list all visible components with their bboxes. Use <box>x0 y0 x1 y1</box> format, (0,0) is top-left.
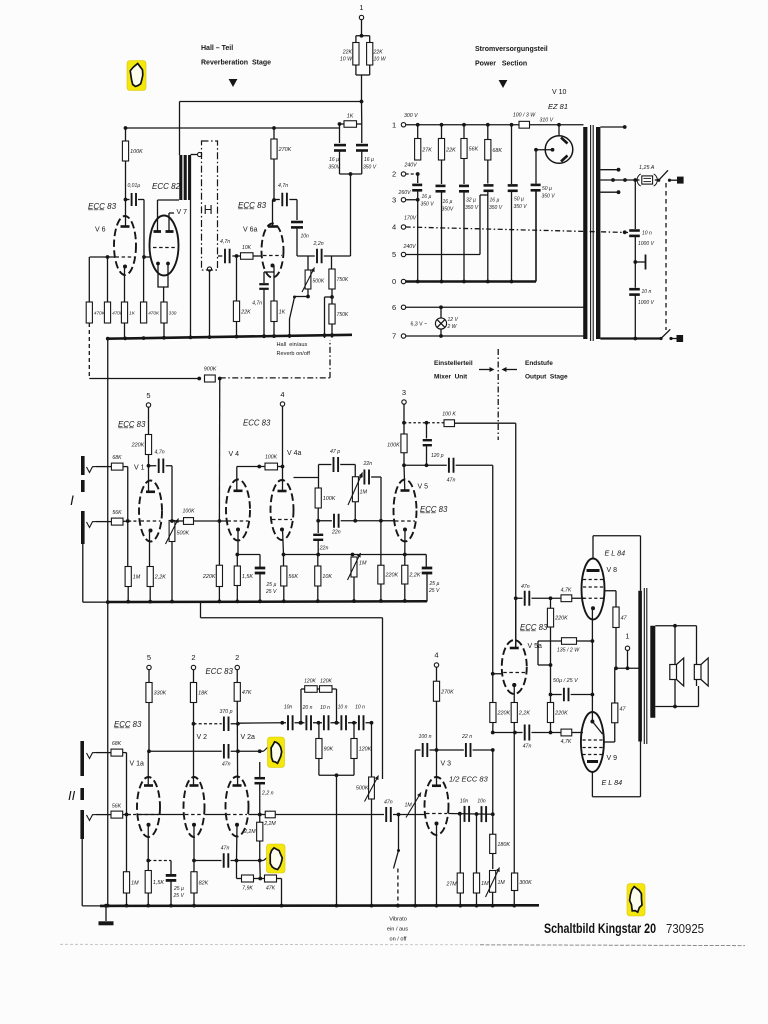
potentiometer 1M (treble) <box>352 477 358 502</box>
node V2a grid switch <box>258 749 262 753</box>
switch mains (upper pole) <box>657 179 660 182</box>
svg-text:47K: 47K <box>266 886 276 892</box>
svg-text:1M: 1M <box>131 880 139 886</box>
svg-text:5: 5 <box>392 250 396 259</box>
svg-text:50 µ: 50 µ <box>514 197 524 203</box>
wire secondary tap 2 <box>600 169 618 171</box>
svg-text:50µ / 25 V: 50µ / 25 V <box>553 678 579 684</box>
svg-text:22n: 22n <box>331 530 341 536</box>
wire 100n left leg to bus <box>414 750 416 906</box>
resistor 120K (tone shunt) <box>353 723 355 739</box>
svg-text:5: 5 <box>146 391 150 400</box>
wire V1 cathode <box>149 531 151 567</box>
resistor 220K (V8 grid leak) <box>550 598 552 608</box>
svg-text:68K: 68K <box>492 148 502 154</box>
svg-text:1M: 1M <box>481 881 489 887</box>
resistor 270K (V3 plate load) <box>433 681 439 701</box>
svg-text:47n: 47n <box>447 478 456 484</box>
node 0,01u tap <box>124 198 128 202</box>
resistor 330 (V7 cathode) <box>161 302 167 323</box>
resistor 4,7K (V9 grid stopper) <box>561 729 572 736</box>
wire V10 cathode to 50u node <box>536 149 553 151</box>
wire middle ground bus <box>83 600 425 603</box>
wire speaker top <box>655 625 696 627</box>
svg-text:22K: 22K <box>342 50 353 56</box>
resistor 1M (osc) <box>476 814 478 873</box>
resistor 27M <box>459 814 461 873</box>
node chain 1 <box>280 721 284 725</box>
svg-text:1M: 1M <box>133 575 141 581</box>
capacitor 120p (mixer) <box>426 423 428 439</box>
wire terminal 3 stub <box>406 199 418 201</box>
svg-text:10n: 10n <box>301 234 310 240</box>
svg-text:220K: 220K <box>131 443 145 449</box>
node between 750K resistors <box>331 289 333 304</box>
resistor 470K (V6 grid leak 2) <box>107 257 109 302</box>
svg-text:22 n: 22 n <box>461 734 472 740</box>
svg-text:16 µ: 16 µ <box>443 199 453 205</box>
resistor 100K (mixer to output) <box>444 420 455 427</box>
svg-text:2,2 n: 2,2 n <box>261 791 274 797</box>
wire 22n down to V5 grid <box>380 477 382 521</box>
svg-text:4,7K: 4,7K <box>561 739 572 745</box>
node V3 anode <box>435 748 439 752</box>
svg-text:240V: 240V <box>404 163 418 169</box>
capacitor 25u 25V (V1a bypass) <box>148 860 171 862</box>
arrow marker power section <box>499 80 508 88</box>
svg-text:10 n: 10 n <box>642 231 652 237</box>
capacitor 50u 350V (F) <box>535 150 537 184</box>
svg-text:V 6: V 6 <box>95 227 106 234</box>
capacitor 4,7n (V6a cathode bypass) <box>264 271 274 273</box>
svg-text:10 W: 10 W <box>340 57 353 63</box>
svg-text:350 V: 350 V <box>465 205 479 211</box>
terminal 5 (channel II B+) <box>147 665 151 669</box>
svg-text:50 µ: 50 µ <box>542 186 552 192</box>
node 100K top <box>124 126 128 130</box>
wire V5 anode node <box>403 453 405 466</box>
svg-text:10n: 10n <box>460 799 469 805</box>
resistor 220K (V5 grid leak) <box>380 521 382 566</box>
svg-text:180K: 180K <box>497 842 510 848</box>
svg-text:47n: 47n <box>221 846 230 852</box>
svg-text:300 V: 300 V <box>404 113 418 119</box>
node tone shunt join <box>335 773 339 777</box>
resistor 2,2K (V5a cathode) <box>511 703 517 723</box>
resistor 1M (V1a grid leak) <box>126 815 128 872</box>
svg-text:0: 0 <box>392 277 396 286</box>
svg-text:16 µ: 16 µ <box>422 194 432 200</box>
terminal 0 (ground bus) <box>401 279 405 283</box>
svg-text:25 µ: 25 µ <box>173 886 184 892</box>
svg-text:10n: 10n <box>284 705 293 711</box>
svg-text:32 µ: 32 µ <box>466 198 476 204</box>
wire V7 anodes to reverb transformer <box>157 200 159 232</box>
wire terminal 5 down <box>148 407 150 434</box>
node chain right <box>370 721 374 725</box>
svg-text:500K: 500K <box>177 531 190 537</box>
svg-text:V 3: V 3 <box>441 761 452 768</box>
svg-text:750K: 750K <box>337 312 349 318</box>
svg-text:500K: 500K <box>356 786 369 792</box>
svg-text:100K: 100K <box>130 149 143 155</box>
svg-text:47n: 47n <box>222 762 231 768</box>
junction dots hall bus <box>106 337 110 341</box>
node V8 coupling <box>514 596 518 600</box>
terminal 7 (heater return) <box>401 334 405 338</box>
yellow marker blob 2 <box>268 737 285 768</box>
resistor 120K (bridge b) <box>320 686 333 693</box>
wire V6 anode to 100K <box>125 161 127 226</box>
terminal mains square (lower) <box>677 335 684 342</box>
svg-text:350 V: 350 V <box>514 204 528 210</box>
resistor 47 (V9 screen) <box>612 703 618 723</box>
wire 100K to 22n row <box>317 508 319 521</box>
resistor 68K (input I) <box>111 463 123 470</box>
svg-text:2,2M: 2,2M <box>263 821 276 827</box>
svg-text:56K: 56K <box>112 804 122 810</box>
svg-text:1000 V: 1000 V <box>638 241 655 247</box>
capacitor 2,2n <box>316 249 318 264</box>
svg-text:10 W: 10 W <box>374 57 387 63</box>
node 22n row left <box>316 519 320 523</box>
svg-text:100K: 100K <box>265 455 278 461</box>
capacitor 10n (chain 5) <box>358 715 360 730</box>
wire osc column down <box>492 750 494 834</box>
wire V8 anode to OT primary <box>592 536 594 559</box>
transformer mains T1 primary winding <box>583 127 587 339</box>
node chain 4 <box>335 721 339 725</box>
terminal 6 (heater) <box>401 305 405 309</box>
terminal 2 (V2 B+) <box>191 665 195 669</box>
svg-text:27M: 27M <box>446 882 458 888</box>
wire 18K to V2 anode <box>193 703 195 786</box>
wire 750K tap <box>325 296 333 298</box>
svg-text:V 5: V 5 <box>418 484 429 491</box>
svg-text:E̲C̲C̲ 83: E̲C̲C̲ 83 <box>519 623 548 632</box>
resistor 100K (V4 plate feed) <box>265 463 278 470</box>
resistor 1,5K (V1a cathode) <box>147 861 149 871</box>
transformer output secondary <box>650 626 655 718</box>
resistor 47 (V8 screen) <box>613 607 619 628</box>
capacitor 10n (osc a) <box>464 806 466 822</box>
capacitor 47n (V9 coupling) <box>516 732 523 734</box>
wire bias link <box>537 641 539 665</box>
tube V9 EL84 <box>581 712 604 772</box>
wire V2a cathode <box>236 825 239 861</box>
junction dots bottom bus <box>106 904 110 908</box>
node bus spine <box>106 600 110 604</box>
svg-text:1: 1 <box>359 3 363 12</box>
svg-text:120K: 120K <box>359 747 372 753</box>
svg-text:350V: 350V <box>442 207 454 213</box>
resistor 22K 10W (left) <box>355 36 357 43</box>
node V1a cathode <box>146 859 150 863</box>
node junction reverb feed <box>360 100 364 104</box>
svg-text:2,2n: 2,2n <box>313 241 324 247</box>
svg-text:220K: 220K <box>554 711 568 717</box>
wire grid line channel II <box>137 814 160 816</box>
node V4a plate <box>281 465 285 469</box>
svg-text:II: II <box>68 788 76 803</box>
jack II contact upper <box>87 753 97 759</box>
wire 100K to V8 feed column <box>455 422 516 424</box>
svg-text:170V: 170V <box>404 216 417 222</box>
svg-text:22K: 22K <box>240 309 251 315</box>
wire parallel rails for 22K pair <box>356 35 370 37</box>
wire 68K to grid node <box>123 466 128 468</box>
svg-text:E̲C̲C̲ 83: E̲C̲C̲ 83 <box>419 505 448 514</box>
wire V8 screen to 47 <box>605 590 617 592</box>
node V2 cathode <box>192 859 196 863</box>
svg-text:10n: 10n <box>477 799 486 805</box>
wire coupling down to 500K pot <box>171 466 173 521</box>
wire V7 grid stub <box>144 256 151 258</box>
svg-text:4: 4 <box>392 223 396 232</box>
svg-text:10 n: 10 n <box>320 705 330 711</box>
svg-text:2 W: 2 W <box>447 324 458 330</box>
potentiometer 500K (tone II) <box>371 723 373 777</box>
svg-text:1,5K: 1,5K <box>242 574 253 580</box>
svg-text:1: 1 <box>392 121 396 130</box>
wire to series resistors <box>236 861 238 879</box>
node chain 2 <box>299 721 303 725</box>
svg-text:56K: 56K <box>112 510 122 516</box>
svg-text:ECC 83: ECC 83 <box>206 667 234 676</box>
wire speaker bottom <box>655 706 698 708</box>
wire V4 anode to 100K supply <box>236 467 238 491</box>
pilot lamp 12V 2W <box>440 307 442 318</box>
svg-text:EZ 81: EZ 81 <box>548 102 568 111</box>
node V5a grid <box>491 672 495 676</box>
wire 56K to grid node dashed <box>123 520 139 522</box>
wire node down to 1K row <box>361 102 363 125</box>
capacitor 10n <box>291 221 303 224</box>
wire jack I sleeve to bus <box>82 544 84 602</box>
svg-text:100 / 3 W: 100 / 3 W <box>513 113 536 119</box>
svg-text:ECC 82: ECC 82 <box>152 182 181 191</box>
svg-text:100K: 100K <box>323 496 336 502</box>
wire V5 anode up <box>403 465 406 490</box>
node V9 coupling <box>549 731 553 735</box>
node V1 grid <box>126 519 130 523</box>
speaker B <box>694 665 701 680</box>
wire heater 6 to transformer <box>406 306 584 308</box>
capacitor 47p <box>319 464 332 466</box>
wire terminal 4 down <box>282 406 284 466</box>
svg-text:25 V: 25 V <box>265 589 277 595</box>
node 900K left <box>197 377 201 381</box>
resistor 1M (V1 grid leak) <box>127 521 129 567</box>
svg-text:Hall – Teil: Hall – Teil <box>201 45 233 52</box>
svg-text:1M: 1M <box>359 561 367 567</box>
node 1K left <box>338 122 342 126</box>
resistor 100K (V5 plate load) <box>401 434 407 453</box>
transformer output core <box>643 588 645 744</box>
wire terminal 1 down <box>361 20 363 36</box>
svg-text:47n: 47n <box>523 744 532 750</box>
capacitor 16u 350V (B) <box>441 160 443 184</box>
svg-text:10K: 10K <box>242 245 252 251</box>
transformer mains core <box>590 125 592 341</box>
capacitor 100n (vibrato osc) <box>415 749 420 751</box>
wire chain segments <box>282 722 286 724</box>
capacitor 47n (to vibrato mix) <box>385 807 387 822</box>
node V5 grid <box>379 519 383 523</box>
capacitor 10n (chain 4) <box>340 715 342 730</box>
svg-text:E L 84: E L 84 <box>605 549 626 558</box>
resistor 135/2W (cathode bias) <box>538 640 562 642</box>
node chain 5 <box>352 721 356 725</box>
svg-text:V 4a: V 4a <box>287 450 302 457</box>
wire terminal 3 down <box>403 404 405 434</box>
svg-text:730925: 730925 <box>666 921 704 936</box>
wire screen rail <box>616 667 639 669</box>
resistor 120K (bridge a) <box>300 689 302 723</box>
switch mains (lower pole) <box>659 337 662 340</box>
resistor 47K (V2a plate load) <box>234 683 240 702</box>
node osc column <box>491 748 495 752</box>
potentiometer 1M (vibrato intensity) <box>490 871 496 893</box>
svg-text:Vibrato: Vibrato <box>389 917 407 923</box>
svg-text:4: 4 <box>434 651 438 660</box>
wire 22K pair down to node <box>361 75 363 102</box>
arrow marker reverberation stage <box>229 79 238 87</box>
svg-text:20 n: 20 n <box>302 705 313 711</box>
wire transformer top to reverb line <box>179 102 181 156</box>
wire V1a cathode <box>147 825 149 861</box>
svg-text:12 V: 12 V <box>448 317 459 323</box>
wire 100K to terminal4/V4a <box>278 466 283 468</box>
svg-text:1M: 1M <box>405 803 413 809</box>
junction dots middle bus <box>126 600 130 604</box>
reverb tank H (dash-dot box) <box>202 141 218 270</box>
node 1M pot bottom <box>353 519 357 523</box>
wire B+ feed to reverb stage y128 <box>124 127 340 129</box>
wire V4a cathode down <box>283 530 284 555</box>
wire bus drop to lower channel <box>200 602 202 618</box>
resistor 22K 10W (right) <box>369 36 371 43</box>
wire 900K down to V4 grid <box>218 379 220 522</box>
svg-text:82K: 82K <box>199 880 209 886</box>
node V4 cathode rail <box>235 553 239 557</box>
svg-text:10K: 10K <box>322 574 332 580</box>
capacitor 22n (V4a cathode leg) <box>317 521 319 533</box>
resistor 220K (V4 grid leak) <box>218 521 220 565</box>
svg-text:E̲C̲C̲ 83: E̲C̲C̲ 83 <box>238 201 267 210</box>
wire HT rail 300V <box>406 124 519 126</box>
svg-text:47n: 47n <box>521 584 530 590</box>
wire V6a output row <box>297 255 315 257</box>
node caps bottom <box>349 172 353 176</box>
wire reverb B+ horizontal <box>180 101 362 103</box>
resistor 10K (tone shunt) <box>317 555 319 567</box>
svg-text:Hall ein/aus: Hall ein/aus <box>277 342 308 348</box>
svg-text:2: 2 <box>235 653 239 662</box>
svg-text:V 10: V 10 <box>552 89 567 96</box>
jack I contact lower <box>87 522 97 528</box>
svg-text:47: 47 <box>621 615 628 621</box>
svg-text:310 V: 310 V <box>540 118 554 124</box>
node V2a grid <box>258 813 262 817</box>
resistor 22K (V6a input load) <box>236 256 238 301</box>
svg-text:E̲C̲C̲ 83: E̲C̲C̲ 83 <box>117 420 146 429</box>
svg-text:16 µ: 16 µ <box>490 198 500 204</box>
wire fuse node down to 10n caps <box>634 180 636 229</box>
svg-text:V 4: V 4 <box>229 451 240 458</box>
resistor 56K (input I) <box>111 518 123 525</box>
wire terminal 4 dashed to 10n caps <box>406 227 628 233</box>
resistor 2,2M (V2a grid series) <box>265 811 275 818</box>
switch vibrato on/off <box>398 815 400 851</box>
svg-text:330: 330 <box>169 311 177 316</box>
wire secondary tap 4 <box>600 191 618 193</box>
svg-text:25 V: 25 V <box>173 893 185 899</box>
capacitor 4,7n (V1 coupling) <box>149 465 157 467</box>
svg-text:10 n: 10 n <box>355 705 365 711</box>
node 500K top <box>170 519 174 523</box>
wire tone shunt to bus <box>336 775 338 905</box>
svg-text:10 n: 10 n <box>642 289 652 295</box>
potentiometer 1M (vibrato depth) <box>406 793 421 818</box>
resistor 470K (V6 grid leak 1) <box>88 257 90 302</box>
transformer reverb driver T2 <box>179 155 182 200</box>
capacitor 10n 1000V (lower) <box>629 288 640 291</box>
wire transformer secondary to tank <box>191 154 198 156</box>
node tank output circle <box>207 267 211 271</box>
terminal mains square (upper) <box>677 177 684 184</box>
switch Hall ein/aus <box>293 296 296 299</box>
node V6 grid / 470K <box>106 255 110 259</box>
svg-text:7,9K: 7,9K <box>242 886 253 892</box>
svg-text:68K: 68K <box>112 455 122 461</box>
node between 7,9K and 47K <box>254 878 265 880</box>
svg-text:Reverberation Stage: Reverberation Stage <box>201 60 271 67</box>
node V2a anode 47n <box>236 749 240 753</box>
wire caps node down <box>350 174 352 256</box>
wire V1a anode up <box>147 751 149 785</box>
resistor 900K <box>205 375 216 382</box>
svg-text:V 5a: V 5a <box>528 643 543 650</box>
svg-text:25 µ: 25 µ <box>266 582 277 588</box>
resistor 90K (tone shunt) <box>318 723 320 739</box>
resistor 1K (V6 cathode) <box>121 302 127 323</box>
svg-text:16 µ: 16 µ <box>364 157 374 163</box>
wire hall ground bus <box>108 335 353 339</box>
node tank input circle <box>198 152 202 156</box>
resistor 180K <box>490 834 496 853</box>
resistor 22K (power) <box>441 125 443 139</box>
scan artifact dotted rule <box>60 943 480 946</box>
wire 0,01u down to V7 grid <box>143 200 145 258</box>
svg-text:7: 7 <box>392 332 396 341</box>
svg-text:2,2K: 2,2K <box>408 573 420 579</box>
input jack I <box>81 456 85 475</box>
svg-text:350 V: 350 V <box>489 205 503 211</box>
resistor 56K (V4a cathode) <box>283 555 285 567</box>
wire tone node column <box>318 478 320 489</box>
wire V6a anode up to 270K <box>272 200 274 227</box>
svg-text:V 1a: V 1a <box>130 761 145 768</box>
wire V4 cathode down <box>237 530 239 555</box>
resistor 220K (V9 grid leak) <box>550 665 552 703</box>
wire V5 grid into tube <box>381 520 394 522</box>
resistor 4,7K (V8 grid stopper) <box>561 595 572 602</box>
svg-text:4,7n: 4,7n <box>252 301 262 307</box>
resistor 10K (V6a grid stopper) <box>241 253 254 260</box>
resistor 100K (V6 plate load) <box>122 141 128 161</box>
svg-text:47K: 47K <box>242 690 252 696</box>
